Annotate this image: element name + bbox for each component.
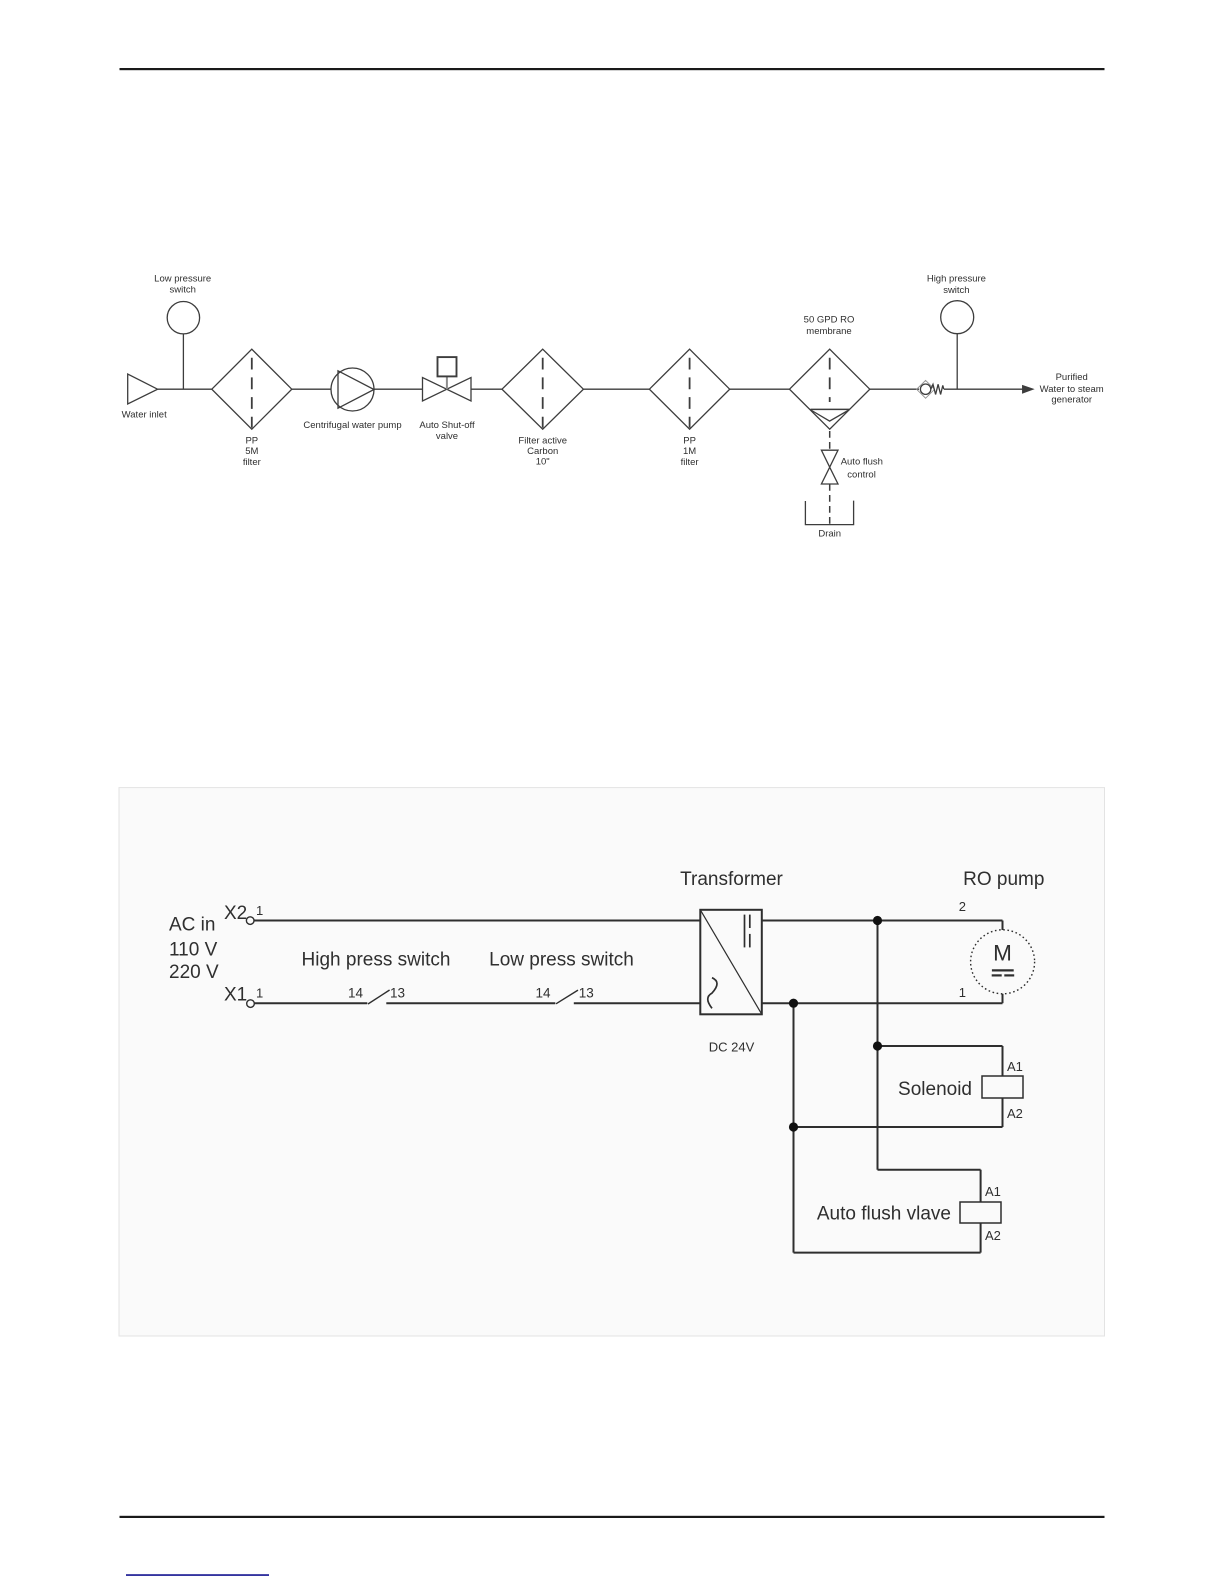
svg-text:Auto flush vlave: Auto flush vlave (817, 1204, 951, 1225)
svg-text:1: 1 (959, 985, 966, 1000)
svg-text:filter: filter (681, 457, 699, 468)
svg-text:valve: valve (436, 431, 458, 442)
svg-text:Auto flush: Auto flush (841, 457, 883, 468)
svg-text:Transformer: Transformer (680, 869, 783, 890)
svg-text:50 GPD RO: 50 GPD RO (804, 315, 855, 326)
svg-text:220 V: 220 V (169, 962, 219, 983)
svg-text:AC in: AC in (169, 915, 215, 936)
svg-text:filter: filter (243, 457, 261, 468)
svg-text:Auto Shut-off: Auto Shut-off (419, 420, 475, 431)
svg-text:1M: 1M (683, 446, 696, 457)
svg-text:Centrifugal water pump: Centrifugal water pump (303, 420, 401, 431)
svg-text:A2: A2 (985, 1228, 1001, 1243)
svg-text:High pressure: High pressure (927, 274, 986, 285)
svg-text:X2: X2 (224, 903, 247, 924)
svg-text:M: M (993, 940, 1012, 965)
svg-text:14: 14 (348, 985, 364, 1000)
svg-text:10": 10" (536, 456, 550, 467)
svg-text:Solenoid: Solenoid (898, 1079, 972, 1100)
svg-text:110 V: 110 V (169, 940, 218, 961)
svg-text:DC 24V: DC 24V (709, 1040, 755, 1055)
svg-text:switch: switch (169, 284, 195, 295)
svg-text:switch: switch (943, 285, 969, 296)
svg-text:1: 1 (256, 903, 263, 918)
svg-text:generator: generator (1051, 395, 1092, 406)
svg-text:Low press switch: Low press switch (489, 950, 634, 971)
svg-text:Purified: Purified (1056, 372, 1088, 383)
svg-text:High press switch: High press switch (302, 950, 451, 971)
svg-text:X1: X1 (224, 985, 247, 1006)
svg-text:1: 1 (256, 985, 263, 1000)
svg-text:A1: A1 (1007, 1059, 1023, 1074)
svg-text:A2: A2 (1007, 1106, 1023, 1121)
svg-text:Water inlet: Water inlet (122, 410, 167, 421)
svg-text:membrane: membrane (806, 326, 851, 337)
svg-text:PP: PP (683, 435, 696, 446)
svg-text:control: control (847, 469, 876, 480)
svg-text:Water to steam: Water to steam (1040, 384, 1104, 395)
svg-text:13: 13 (579, 985, 594, 1000)
svg-text:Low pressure: Low pressure (154, 273, 211, 284)
svg-text:RO pump: RO pump (963, 869, 1044, 890)
svg-text:Filter active: Filter active (518, 435, 567, 446)
svg-text:5M: 5M (245, 446, 258, 457)
svg-text:Drain: Drain (818, 528, 841, 539)
svg-text:14: 14 (535, 985, 551, 1000)
svg-text:2: 2 (959, 899, 966, 914)
svg-text:13: 13 (390, 985, 405, 1000)
svg-text:PP: PP (245, 435, 258, 446)
svg-text:A1: A1 (985, 1184, 1001, 1199)
